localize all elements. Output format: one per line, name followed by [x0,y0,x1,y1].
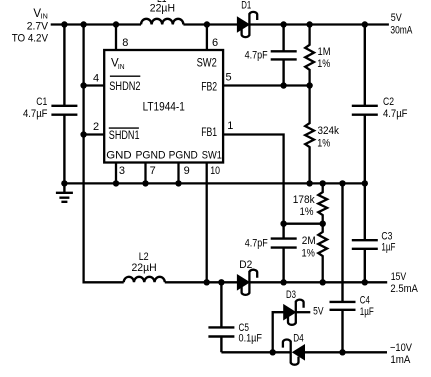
svg-text:D4: D4 [293,332,304,344]
wire pin10 SW1 to L2 [206,163,208,284]
node 15V-C3 [362,279,368,285]
svg-text:SHDN2: SHDN2 [109,81,140,93]
svg-text:30mA: 30mA [390,24,412,36]
svg-text:8: 8 [122,37,128,49]
node SW2 [204,21,210,27]
wire VIN top rail [51,23,141,25]
svg-text:6: 6 [212,37,218,49]
svg-text:4.7pF: 4.7pF [245,237,268,249]
ground [56,193,73,202]
wire -10V rail right [305,351,387,353]
svg-text:4: 4 [93,73,99,85]
svg-text:LT1944-1: LT1944-1 [143,100,185,114]
node VIN-pin8 [113,21,119,27]
resistor 2M [318,223,327,283]
node FB2-4.7pF [280,82,286,88]
node 5V-C2 [362,21,368,27]
wire D3 cathode stub [296,311,311,313]
svg-text:3: 3 [119,165,125,177]
wire pin4 stub [84,84,105,86]
svg-text:PGND: PGND [136,150,166,162]
wire FB1 node [284,223,323,225]
node VIN-SHDN [80,21,86,27]
svg-text:15V: 15V [391,271,407,283]
svg-text:1µF: 1µF [360,306,374,318]
node FB1-4.7pF [280,221,286,227]
svg-text:22µH: 22µH [150,3,175,15]
resistor 178k label [293,194,315,218]
node 5V-4.7pF [280,21,286,27]
wire -10V rail left [221,351,290,353]
inductor L2 label [132,251,157,274]
capacitor C4 label [360,294,374,318]
svg-text:TO 4.2V: TO 4.2V [12,33,49,45]
svg-text:22µH: 22µH [132,262,157,274]
wire FB2 [223,84,310,86]
wire 15V rail [249,281,387,283]
op-amp U1 LT1944-1 box [104,50,223,163]
node -10V-C4 [339,349,345,355]
resistor 324k [305,85,314,185]
capacitor C4 [330,182,356,353]
svg-text:4.7pF: 4.7pF [245,49,268,61]
wire SHDN vertical to L2 [84,24,124,283]
svg-text:9: 9 [184,165,190,177]
svg-text:SW2: SW2 [197,58,217,70]
svg-text:178k: 178k [293,194,315,206]
svg-text:10: 10 [210,165,220,177]
svg-text:SW1: SW1 [202,150,222,162]
node GND-pin9 [175,180,181,186]
node FB1-178k-2M [320,221,326,227]
node GND-C2 [362,180,368,186]
svg-text:FB1: FB1 [201,127,217,139]
svg-text:D2: D2 [239,259,252,271]
svg-text:C2: C2 [383,96,394,108]
node 5V-1M [306,21,312,27]
svg-text:−10V: −10V [390,342,413,354]
svg-text:4.7µF: 4.7µF [23,108,48,120]
capacitor C3 label [381,231,395,254]
node FB2-1M-324k [306,82,312,88]
svg-text:C4: C4 [360,294,370,306]
node SW1-C5 [218,279,224,285]
node -10V output label [390,342,413,366]
svg-text:1%: 1% [317,137,330,149]
resistor 1M label [317,46,330,70]
wire pin8 stub [115,24,117,52]
wire 5V rail [249,23,389,25]
capacitor C2 [352,24,378,185]
svg-text:2.7V: 2.7V [27,21,49,33]
capacitor C2 label [383,96,408,120]
capacitor 4.7pF top [271,24,297,87]
svg-text:1µF: 1µF [381,242,395,254]
wire L2 to D2 [165,281,238,283]
capacitor 4.7pF bottom [271,224,297,283]
svg-text:0.1µF: 0.1µF [239,333,263,345]
wire FB1 [223,135,284,224]
svg-text:5V: 5V [391,12,403,24]
node GND-C4 [339,180,345,186]
wire pin9 stub [177,163,179,185]
svg-text:GND: GND [106,150,131,162]
wire pin6 stub [206,24,208,52]
capacitor C3 [352,182,378,283]
node SHDN2 [80,82,86,88]
wire pin3 stub [115,163,117,185]
svg-text:D3: D3 [286,289,296,301]
wire SW2 node [183,23,237,25]
svg-text:SHDN1: SHDN1 [109,130,140,142]
diode D1 [237,12,257,37]
resistor 2M label [302,235,316,260]
node GND-pin7 [142,180,148,186]
svg-text:1M: 1M [318,46,331,58]
capacitor C1 [51,24,77,193]
pin name SHDN2 [109,76,140,93]
diode D3 [284,300,304,325]
svg-text:1mA: 1mA [390,354,411,366]
svg-text:4.7µF: 4.7µF [383,108,408,120]
node 15V output label [390,271,418,295]
node 5V output label [390,12,412,37]
svg-text:C1: C1 [36,96,47,108]
resistor 178k [318,182,327,224]
capacitor C5 [208,281,234,352]
node VIN label [12,8,49,45]
svg-text:IN: IN [41,12,48,21]
svg-text:7: 7 [150,165,156,177]
node GND-ground [61,180,67,186]
node GND-324k [306,180,312,186]
capacitor C1 label [23,96,48,120]
diode D4 [283,340,305,365]
svg-text:2.5mA: 2.5mA [390,283,418,295]
capacitor C5 label [239,322,263,345]
inductor L1 [141,19,183,25]
inductor L1 label [150,0,175,15]
svg-text:2M: 2M [302,235,316,247]
node GND-178k [320,180,326,186]
svg-text:1%: 1% [317,58,330,70]
svg-text:D1: D1 [241,0,251,11]
node 15V-4.7pF [280,279,286,285]
svg-text:1%: 1% [300,206,314,218]
svg-text:2: 2 [93,121,99,133]
wire D3 branch [273,312,284,353]
svg-text:324k: 324k [318,125,340,137]
svg-text:5V: 5V [313,306,324,318]
svg-text:1%: 1% [302,248,316,260]
svg-text:PGND: PGND [169,150,198,162]
svg-text:FB2: FB2 [201,81,217,93]
diode D2 [237,270,257,295]
node VIN-C1 [61,21,67,27]
svg-text:L2: L2 [139,251,149,263]
node 15V-2M [320,279,326,285]
wire pin7 stub [144,163,146,185]
resistor 1M [305,24,314,87]
node SW1-L2 [204,279,210,285]
svg-text:5: 5 [226,72,232,84]
node GND-pin3 [113,180,119,186]
resistor 324k label [317,125,339,149]
wire GND rail [64,182,364,184]
wire pin2 stub [84,133,105,135]
svg-text:IN: IN [118,62,125,71]
inductor L2 [124,277,165,283]
pin name SHDN1 [109,128,140,142]
pin name VIN [111,57,125,71]
node -10V-D3 [270,349,276,355]
svg-text:1: 1 [227,120,233,132]
node SHDN1 [80,131,86,137]
